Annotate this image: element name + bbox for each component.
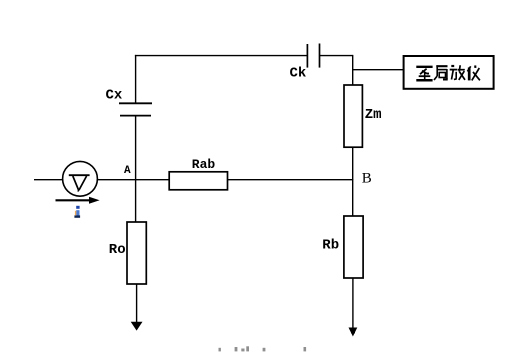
resistor R0 bbox=[127, 222, 146, 284]
label 至局放仪 glyph 放 bbox=[450, 65, 465, 80]
voltmeter V letter bbox=[69, 175, 90, 191]
wire left stub to voltmeter bbox=[34, 179, 63, 181]
svg-text:Ro: Ro bbox=[109, 242, 126, 258]
wire node B down to Rb bbox=[352, 179, 354, 216]
svg-text:Cx: Cx bbox=[106, 88, 123, 104]
label 至局放仪 glyph 仪 bbox=[467, 65, 480, 80]
resistor Rab bbox=[169, 172, 227, 190]
wire node A up to capacitor Cx bbox=[135, 116, 137, 180]
svg-text:Ck: Ck bbox=[290, 65, 307, 81]
wire Zm to node B bbox=[352, 147, 354, 180]
svg-text:B: B bbox=[362, 170, 372, 186]
svg-text:Rb: Rb bbox=[322, 237, 339, 253]
capacitor Ck bbox=[307, 44, 319, 68]
wire voltmeter to node A bbox=[97, 179, 169, 181]
label 至局放仪 glyph 局 bbox=[434, 65, 448, 80]
wire branch to detector box bbox=[353, 69, 403, 71]
wire Cx up to top rail bbox=[135, 55, 137, 103]
voltmeter V1 circle bbox=[63, 161, 98, 196]
top rail wire to Ck bbox=[135, 55, 307, 57]
svg-text:Zm: Zm bbox=[365, 107, 382, 123]
current arrow i bbox=[56, 197, 100, 204]
ground arrow under Rb bbox=[349, 278, 358, 337]
resistor Rb bbox=[344, 216, 363, 278]
wire node A down to R0 bbox=[135, 179, 137, 222]
svg-text:A: A bbox=[124, 165, 131, 177]
detector box 至局放仪 bbox=[404, 56, 494, 89]
caption fragment marks (cut-off text at bottom) bbox=[219, 346, 307, 351]
wire Ck to top-right corner bbox=[320, 55, 353, 57]
capacitor Cx bbox=[119, 103, 152, 115]
svg-text:Rab: Rab bbox=[192, 157, 216, 172]
wire corner down to Zm bbox=[352, 55, 354, 85]
ground arrow under R0 bbox=[131, 284, 143, 331]
label i (current) bbox=[74, 206, 80, 218]
wire Rab to node B bbox=[228, 179, 353, 181]
label 至局放仪 glyph 至 bbox=[416, 67, 432, 81]
resistor Zm bbox=[344, 85, 362, 147]
